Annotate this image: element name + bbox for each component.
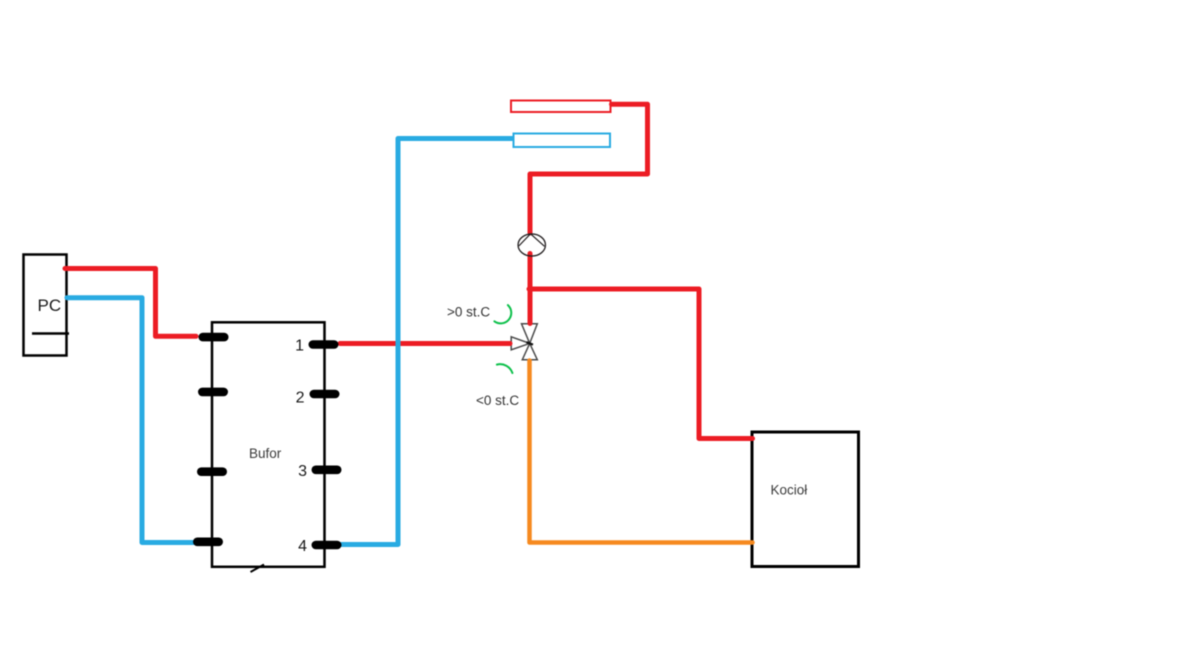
svg-text:PC: PC <box>38 296 62 315</box>
svg-text:Kocioł: Kocioł <box>771 482 808 497</box>
wire orange valve bottom to kociol return <box>530 361 753 543</box>
mixing valve top triangle <box>522 324 538 344</box>
wire red junction to kociol inlet <box>529 289 753 439</box>
Kociol box (boiler) <box>752 432 859 567</box>
radiator red (upper heating loop) <box>511 101 611 113</box>
mixing valve center mark <box>527 342 534 344</box>
svg-text:2: 2 <box>296 389 305 406</box>
bufor left port row4 <box>193 538 223 547</box>
svg-text:>0 st.C: >0 st.C <box>447 305 490 320</box>
green arc lower (valve position <0) <box>497 364 513 373</box>
bufor left port row2 <box>198 388 228 397</box>
wire red bufor right port 1 to mixing valve left <box>340 341 510 346</box>
mixing valve bottom triangle <box>522 343 537 359</box>
bufor right port 1 <box>309 340 339 349</box>
svg-text:3: 3 <box>298 463 307 480</box>
bufor right port 2 <box>310 390 340 399</box>
pump circle <box>518 234 545 256</box>
radiator blue (lower heating loop) <box>514 134 611 148</box>
Bufor box <box>212 322 325 567</box>
wire blue bufor right port 4 up to blue radiator <box>340 139 512 545</box>
bufor bottom tick mark <box>251 565 265 573</box>
green arc upper (valve position >0) <box>494 305 511 323</box>
wire red pump outlet down to valve top <box>528 254 533 324</box>
bufor right port 3 <box>312 466 342 475</box>
svg-text:1: 1 <box>295 338 304 355</box>
mixing valve left triangle <box>511 337 530 350</box>
svg-text:4: 4 <box>298 538 307 555</box>
bufor left port row3 <box>197 467 227 476</box>
svg-text:Bufor: Bufor <box>249 446 282 461</box>
PC internal line <box>32 332 69 335</box>
bufor left port row1 <box>199 333 229 342</box>
wire red PC supply to bufor left port 1 <box>65 269 196 337</box>
bufor right port 4 <box>312 541 342 550</box>
PC box (heat pump) <box>24 255 67 356</box>
wire red radiator supply down to pump <box>530 104 648 233</box>
wire blue PC return to bufor left port 4 <box>67 298 196 543</box>
pump impeller lines <box>519 234 545 247</box>
svg-text:<0 st.C: <0 st.C <box>476 393 519 408</box>
